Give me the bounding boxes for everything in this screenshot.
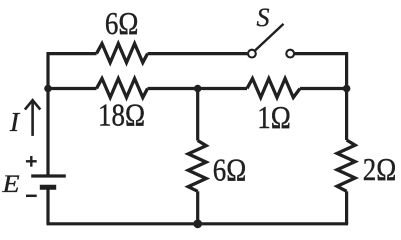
node D (bottom, 6Ω junction) bbox=[193, 219, 202, 228]
wire bbox=[196, 191, 199, 224]
resistor 6Ω (center vertical) bbox=[188, 141, 206, 192]
wire bbox=[295, 54, 347, 140]
svg-text:6Ω: 6Ω bbox=[213, 153, 247, 187]
wire bbox=[148, 52, 248, 55]
wire bbox=[345, 191, 348, 224]
svg-text:2Ω: 2Ω bbox=[363, 153, 397, 187]
resistor 18Ω (middle branch left) bbox=[97, 79, 148, 98]
node B (center, 18Ω/1Ω/6Ω junction) bbox=[194, 85, 202, 93]
current arrow I bbox=[25, 100, 40, 136]
node A (left, 18Ω junction) bbox=[44, 85, 52, 93]
svg-text:6Ω: 6Ω bbox=[105, 7, 139, 41]
wire bbox=[46, 188, 49, 224]
switch S bbox=[248, 24, 294, 58]
wire bbox=[48, 87, 97, 90]
battery minus sign bbox=[26, 195, 37, 198]
svg-text:S: S bbox=[257, 3, 270, 32]
svg-text:18Ω: 18Ω bbox=[98, 99, 145, 133]
wire bbox=[47, 222, 349, 225]
wire bbox=[196, 89, 199, 141]
resistor 6Ω (top branch) bbox=[97, 44, 148, 63]
battery E bbox=[31, 176, 66, 187]
svg-text:E: E bbox=[1, 169, 19, 197]
wire bbox=[300, 87, 347, 90]
node C (right, 1Ω/2Ω junction) bbox=[343, 85, 351, 93]
resistor 2Ω (right branch) bbox=[337, 140, 355, 191]
svg-text:1Ω: 1Ω bbox=[257, 101, 291, 135]
resistor 1Ω (middle branch right) bbox=[247, 79, 300, 98]
svg-text:I: I bbox=[9, 106, 21, 137]
battery plus sign bbox=[26, 156, 37, 167]
wire bbox=[48, 54, 97, 176]
wire bbox=[148, 87, 248, 90]
